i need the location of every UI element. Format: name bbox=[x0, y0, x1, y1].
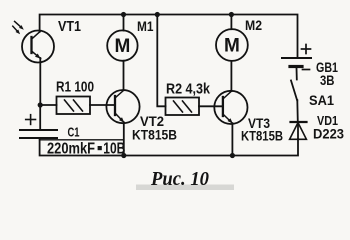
svg-text:KT815B: KT815B bbox=[132, 127, 177, 143]
svg-text:VT1: VT1 bbox=[58, 18, 81, 35]
svg-text:KT815B: KT815B bbox=[241, 128, 283, 144]
svg-text:220mkF: 220mkF bbox=[47, 141, 95, 158]
svg-text:R2 4,3k: R2 4,3k bbox=[166, 81, 211, 98]
svg-text:D223: D223 bbox=[313, 126, 344, 142]
svg-text:SA1: SA1 bbox=[309, 92, 334, 108]
svg-text:Рис. 10: Рис. 10 bbox=[150, 168, 209, 190]
svg-text:C1: C1 bbox=[68, 126, 80, 140]
svg-text:10B: 10B bbox=[103, 141, 125, 158]
svg-text:M: M bbox=[224, 36, 240, 57]
svg-text:M: M bbox=[114, 36, 130, 57]
svg-text:3B: 3B bbox=[320, 72, 335, 88]
svg-text:M1: M1 bbox=[137, 18, 154, 34]
svg-text:R1 100: R1 100 bbox=[56, 80, 94, 96]
svg-text:M2: M2 bbox=[245, 17, 262, 33]
